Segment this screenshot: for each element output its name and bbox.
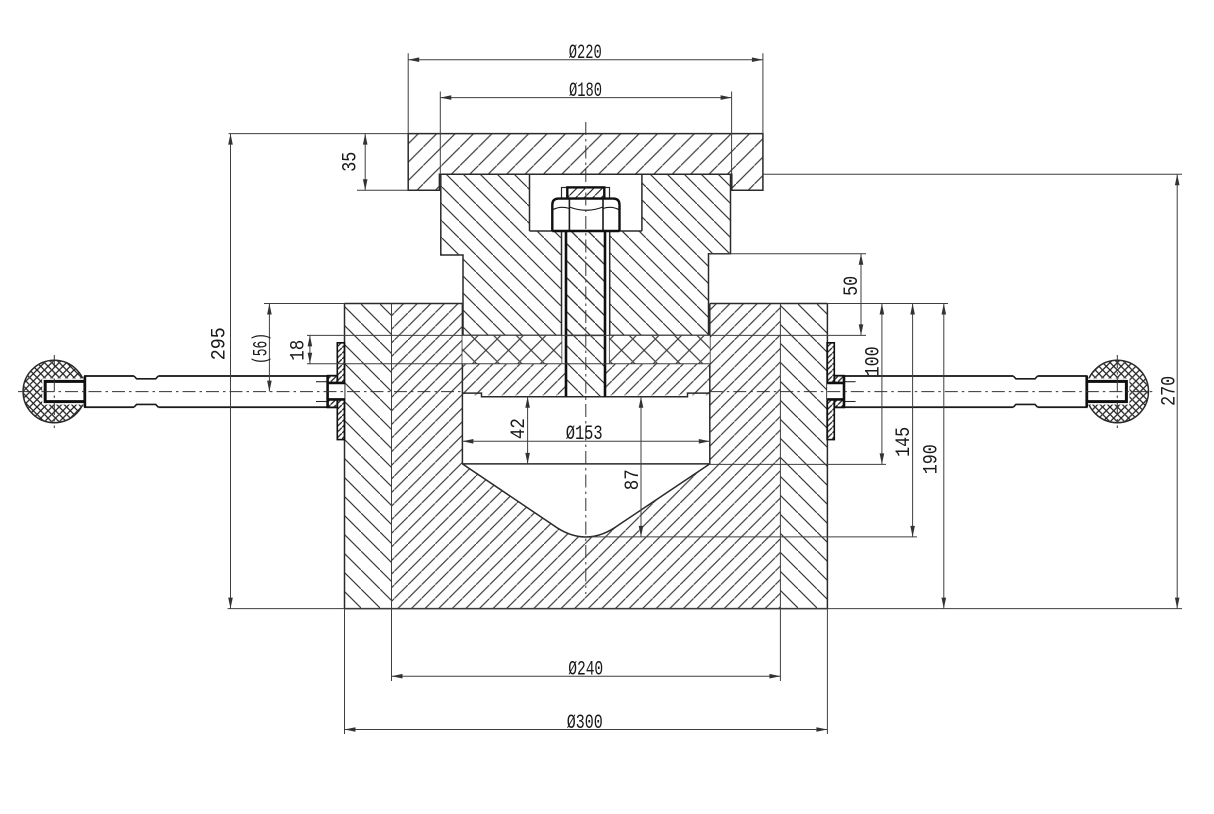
- extension line 270 top: [763, 173, 1182, 175]
- svg-text:18: 18: [288, 340, 311, 361]
- phi300 extension lines: [344, 609, 346, 734]
- dimension 87: [622, 397, 645, 537]
- dimension 145: [893, 304, 916, 537]
- extension line right dims top: [827, 303, 948, 305]
- svg-text:Ø220: Ø220: [569, 42, 602, 65]
- spacer ring under blank: [462, 364, 709, 397]
- extension line 35 bottom: [357, 189, 408, 191]
- left ball centre line: [53, 355, 55, 428]
- upper punch block: [441, 174, 731, 335]
- insert boundary lines: [392, 304, 781, 682]
- die cavity walls and floor: [462, 304, 709, 464]
- washer above nut: [562, 188, 610, 199]
- dimension 100: [862, 304, 885, 465]
- extension 145 bottom (y=536.9): [590, 536, 917, 538]
- dimension phi180: [440, 80, 731, 103]
- right collar blocks: [834, 376, 844, 408]
- bottom base line (y=608.6): [228, 608, 1182, 610]
- phi220 extension lines: [407, 53, 409, 133]
- svg-text:Ø240: Ø240: [568, 659, 603, 682]
- svg-text:Ø153: Ø153: [566, 423, 603, 446]
- svg-text:50: 50: [841, 276, 864, 296]
- step edge + 50 extension (y=253.8): [709, 253, 867, 255]
- lower block outline: [345, 304, 828, 609]
- V cavity profile: [462, 464, 709, 537]
- phi180 extension lines: [439, 92, 441, 175]
- lower die insert (hatched block with cavity): [392, 304, 781, 609]
- clamp screw shank: [566, 231, 605, 397]
- right screw neck: [827, 376, 844, 407]
- svg-text:35: 35: [340, 152, 363, 172]
- dimension 270: [1159, 174, 1182, 608]
- extension line top-left (y=133.6): [229, 133, 409, 135]
- blank top line with extensions (y=335.4): [307, 334, 866, 336]
- svg-text:295: 295: [209, 327, 232, 360]
- screw clearance hole strips: [562, 231, 610, 364]
- svg-text:270: 270: [1159, 376, 1182, 406]
- vertical centre line: [585, 122, 587, 594]
- dimension 190: [920, 304, 946, 609]
- dimension phi220: [408, 42, 763, 65]
- screw stud top: [567, 187, 604, 198]
- left handle centre line: [18, 391, 462, 393]
- extension line (56) top: [264, 303, 345, 305]
- blank bottom line with extension (y=363.8): [307, 363, 710, 365]
- dimension 18: [288, 335, 313, 363]
- dimension 35: [340, 134, 368, 191]
- svg-text:87: 87: [622, 469, 645, 490]
- dimension 50: [841, 254, 864, 336]
- top plate: [408, 134, 763, 191]
- svg-text:42: 42: [508, 418, 531, 439]
- dimension phi153: [462, 423, 709, 446]
- left handle rod: [85, 375, 328, 409]
- svg-text:190: 190: [920, 444, 943, 474]
- right ball centre line: [1116, 355, 1118, 428]
- right handle ball: [1086, 360, 1148, 422]
- shrink ring left wall: [345, 304, 392, 609]
- left collar blocks: [328, 376, 338, 408]
- svg-text:Ø300: Ø300: [567, 712, 603, 735]
- dimension 295: [209, 134, 233, 609]
- dimension phi300: [345, 712, 828, 735]
- dimension (56): [250, 304, 273, 392]
- blank workpiece right band: [610, 335, 710, 363]
- left screw neck: [328, 376, 345, 407]
- dimension phi240: [392, 659, 781, 682]
- svg-text:100: 100: [862, 346, 885, 376]
- extension 100 bottom (y=464.4): [710, 463, 886, 465]
- dimension 42: [508, 397, 531, 464]
- left rod tenon: [42, 378, 85, 404]
- svg-text:145: 145: [893, 427, 916, 457]
- svg-text:Ø180: Ø180: [569, 80, 602, 103]
- left handle ball: [23, 360, 85, 422]
- blank workpiece left band: [462, 335, 561, 363]
- hex nut: [552, 199, 619, 231]
- svg-text:(56): (56): [250, 333, 273, 364]
- right handle rod: [844, 375, 1087, 409]
- right flange plate: [827, 343, 834, 440]
- right rod tenon: [1087, 378, 1130, 404]
- right handle centre line: [710, 391, 1154, 393]
- left flange plate: [337, 343, 344, 440]
- shrink ring right wall: [780, 304, 827, 609]
